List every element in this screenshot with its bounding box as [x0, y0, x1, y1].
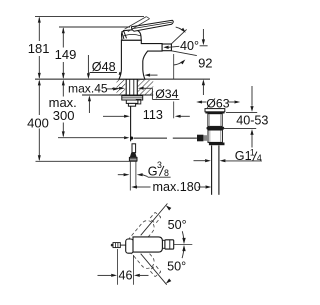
drain flange — [205, 109, 225, 112]
bottom reference line (400 end) — [36, 160, 138, 162]
rod clamp knob — [197, 135, 203, 142]
O-ring — [207, 127, 225, 130]
svg-text:Ø34: Ø34 — [155, 87, 178, 101]
threaded shank through deck — [126, 79, 137, 95]
deck hatching left of hole — [117, 80, 126, 94]
flexible hose with G3/8 connector — [129, 144, 137, 161]
svg-text:113: 113 — [143, 108, 163, 122]
lower black band — [209, 143, 225, 146]
svg-text:300: 300 — [53, 108, 75, 123]
dimension Ø63 flange — [196, 96, 240, 110]
dimension Ø34 mounting hole — [112, 87, 179, 101]
G3/8 thread extension lines — [129, 161, 131, 191]
dimension 149 — [55, 27, 77, 78]
handle boss — [122, 30, 142, 41]
pop-up rod below faucet — [130, 106, 132, 141]
plan view: faucet body — [133, 237, 162, 252]
svg-text:181: 181 — [28, 41, 50, 56]
dimension G1 1/4 drain thread — [194, 147, 263, 163]
svg-text:46: 46 — [118, 269, 132, 283]
extension line from spout tip — [173, 54, 175, 79]
svg-text:50°: 50° — [167, 259, 186, 273]
svg-text:8: 8 — [164, 168, 169, 178]
handle lever (open position, thin) — [125, 17, 147, 30]
svg-text:max.45: max.45 — [68, 82, 108, 96]
horizontal rod linkage line — [58, 136, 197, 140]
svg-text:400: 400 — [27, 115, 49, 130]
plan view: center axis line — [174, 244, 193, 246]
dimension 181 (height to open handle) — [28, 17, 50, 79]
dimension G 3/8 hose thread — [118, 160, 171, 179]
pop-up drain assembly — [197, 109, 225, 195]
dimension 92 spout height — [198, 29, 212, 95]
dimension 40-53 drain height — [223, 86, 268, 148]
svg-text:max.180: max.180 — [153, 180, 201, 194]
rod guide stub — [136, 99, 141, 104]
aerator outlet box — [162, 44, 171, 51]
dimension 400 — [27, 80, 49, 161]
extension line: handle height datum for 149 — [59, 26, 130, 28]
deck top surface line — [35, 78, 210, 80]
handle lever (closed position) — [131, 20, 173, 31]
svg-text:Ø48: Ø48 — [92, 60, 116, 74]
svg-text:149: 149 — [55, 47, 77, 62]
flow direction arrow in aerator + leader to 40 deg — [163, 46, 168, 49]
tail pipe — [211, 145, 213, 194]
dimension max.180 rod run — [131, 180, 211, 194]
svg-text:4: 4 — [257, 153, 262, 163]
plan view: faucet base — [126, 239, 134, 253]
dimension 46 rod offset — [98, 249, 149, 285]
svg-text:1: 1 — [250, 147, 255, 157]
50 deg swing arcs and arrows — [141, 204, 187, 285]
dimension Ø48 base diameter — [90, 60, 158, 77]
svg-text:40-53: 40-53 — [236, 113, 268, 127]
svg-text:50°: 50° — [168, 218, 187, 232]
svg-text:Ø63: Ø63 — [206, 96, 229, 110]
extension line: top of open handle (181/149 datum) — [35, 15, 144, 17]
plan view: aerator — [165, 240, 174, 249]
plan view: pop-up rod stub — [120, 244, 125, 246]
svg-text:92: 92 — [198, 55, 212, 70]
svg-text:3: 3 — [157, 160, 162, 170]
drain neck — [208, 114, 222, 127]
mounting nut and washer below deck — [122, 96, 143, 106]
dimension max. 300 — [49, 80, 77, 138]
dimension 113 — [103, 108, 190, 122]
svg-text:40°: 40° — [180, 39, 199, 53]
dimension max.45 deck thickness — [68, 55, 119, 113]
faucet body (side view) — [119, 40, 162, 79]
drain body — [208, 130, 222, 142]
plan view: spout neck lines — [162, 239, 165, 241]
plan view: dashed handle-swing outline -50deg — [128, 240, 163, 279]
deck hatching right of hole — [138, 80, 153, 94]
40 degree spray angle annotation — [171, 27, 199, 65]
plan view: dashed handle-swing outline +50deg — [128, 210, 163, 249]
deck bottom line / max.45 underline — [82, 94, 153, 96]
